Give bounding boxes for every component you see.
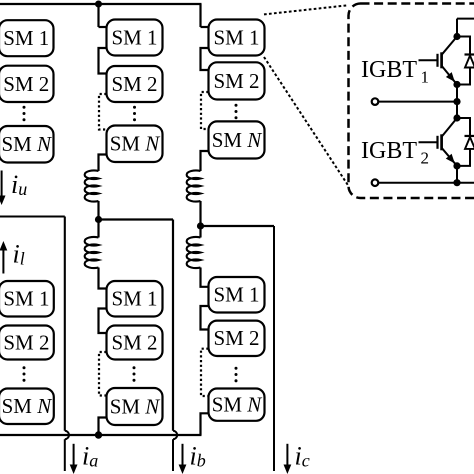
arrow current i_u (0, 171, 6, 206)
svg-text:SM 1: SM 1 (213, 25, 259, 49)
wire rail middle (456, 85, 458, 119)
svg-text:i: i (190, 442, 197, 471)
svg-text:i: i (295, 442, 302, 471)
inductor upper arm phase b (85, 170, 99, 201)
wire mid terminal (378, 101, 457, 103)
wire phase-c vertical (273, 226, 275, 471)
inductor lower arm phase b (85, 237, 99, 268)
submodule SM1 upper arm phase b (107, 20, 163, 56)
inductor lower arm phase c (187, 237, 201, 268)
label i_u (11, 170, 27, 199)
ellipsis dots upper arm phase c (235, 104, 238, 120)
svg-text:u: u (18, 179, 27, 199)
wire inductor to SM1 lower b (99, 268, 107, 289)
submodule SM2 lower arm phase b (107, 326, 163, 360)
wire phase-a tap horizontal (0, 215, 65, 217)
submodule SM1 upper arm phase c (209, 20, 265, 56)
node collector Q2 (453, 114, 460, 121)
submodule SM1 lower arm phase b (107, 281, 163, 317)
node top bus / phase-b leg junction (95, 1, 102, 8)
label i_b (190, 442, 206, 471)
ellipsis dots upper arm phase a (23, 106, 26, 122)
wire stub into SM1 (99, 26, 107, 28)
node emitter Q1 (453, 81, 460, 88)
submodule SMN upper arm phase c (209, 121, 265, 158)
label i_a (82, 442, 98, 471)
arrow current i_c (284, 444, 292, 474)
submodule SM2 lower arm phase a (0, 326, 54, 360)
submodule SMN lower arm phase c (209, 389, 265, 421)
wire inductor to SM1 lower c (201, 268, 209, 287)
submodule SM1 lower arm phase c (209, 277, 265, 313)
node phase-b midpoint (95, 216, 102, 223)
wire phase-b tap horizontal (99, 218, 174, 220)
svg-text:SM 2: SM 2 (111, 72, 157, 96)
wire SM1-SM2 lower c (201, 306, 209, 330)
svg-text:SM 2: SM 2 (3, 72, 49, 96)
wire SMN to bottom bus b (99, 418, 107, 436)
node bottom bus / leg b (95, 431, 102, 438)
wire phase-b vertical (172, 220, 174, 431)
terminal circle lower (372, 179, 379, 186)
svg-text:2: 2 (421, 148, 430, 167)
submodule SMN lower arm phase b (107, 388, 163, 425)
inductor upper arm phase c (187, 170, 201, 201)
dashed detail box outline (349, 4, 474, 199)
wire bottom terminal to capacitor (378, 182, 474, 184)
submodule SM2 lower arm phase c (209, 321, 265, 356)
svg-text:SM 2: SM 2 (213, 326, 259, 350)
wire SMN to bottom bus c (201, 413, 209, 435)
wire leg c top drop (199, 4, 201, 27)
wire phase-c tap horizontal (201, 225, 275, 227)
svg-text:1: 1 (421, 67, 430, 86)
ellipsis dots lower arm phase a (23, 366, 26, 382)
wire top DC bus (0, 3, 202, 5)
node emitter Q2 (453, 162, 460, 169)
svg-text:SM N: SM N (110, 394, 161, 418)
svg-text:SM 1: SM 1 (111, 287, 157, 311)
submodule SMN upper arm phase b (107, 126, 163, 163)
wire rail top (456, 19, 458, 37)
wire rail bottom (456, 166, 458, 183)
label i_c (295, 442, 310, 471)
wire SM1-SM2 upper b (99, 48, 107, 74)
ellipsis dots lower arm phase c (235, 367, 238, 383)
svg-text:SM N: SM N (212, 393, 263, 417)
svg-text:IGBT: IGBT (361, 138, 417, 164)
diode antiparallel Q2 (457, 118, 474, 166)
svg-text:i: i (13, 240, 20, 269)
wire stub into SM1 c (201, 26, 209, 28)
svg-text:a: a (89, 451, 98, 471)
wire detail top rail to capacitor (457, 18, 474, 20)
ellipsis dots upper arm phase b (133, 106, 136, 122)
node collector Q1 (453, 33, 460, 40)
svg-text:SM N: SM N (110, 132, 161, 156)
wire leg b top drop (97, 4, 99, 27)
svg-text:IGBT: IGBT (361, 57, 417, 83)
node phase-c midpoint (197, 222, 204, 229)
IGBT Q1 with antiparallel diode (419, 37, 458, 85)
svg-text:SM 2: SM 2 (213, 69, 259, 93)
label i_l (13, 240, 25, 269)
label IGBT2 (361, 138, 429, 167)
svg-text:SM 1: SM 1 (3, 26, 49, 50)
wire SM1-SM2 lower b (99, 309, 107, 334)
svg-text:c: c (302, 451, 310, 471)
svg-text:i: i (11, 170, 18, 199)
arrow current i_l (0, 241, 7, 274)
svg-text:SM 1: SM 1 (111, 25, 157, 49)
terminal circle upper (372, 98, 379, 105)
submodule SM2 upper arm phase a (0, 66, 54, 102)
wire SM1-SM2 upper c (201, 48, 209, 70)
submodule SMN upper arm phase a (0, 126, 54, 163)
submodule SMN lower arm phase a (0, 389, 54, 425)
wire phase-a below bus (64, 439, 66, 471)
svg-text:b: b (197, 451, 206, 471)
wire dotted SM2-SMN upper c (201, 92, 209, 129)
node bottom terminal junction (453, 179, 460, 186)
svg-text:i: i (82, 442, 89, 471)
svg-text:SM 2: SM 2 (3, 330, 49, 354)
svg-text:SM N: SM N (2, 394, 53, 418)
label IGBT1 (361, 57, 429, 86)
wire to midpoint b (97, 201, 99, 238)
dashed zoom line bottom (264, 57, 349, 186)
submodule SM2 upper arm phase b (107, 66, 163, 102)
IGBT Q2 with antiparallel diode (419, 118, 458, 166)
svg-text:SM N: SM N (212, 128, 263, 152)
wire SMN to arm inductor upper b (99, 155, 107, 172)
submodule SM2 upper arm phase c (209, 62, 265, 99)
wire dotted SM2-SMN lower b (99, 352, 107, 396)
wire to midpoint c (199, 201, 201, 238)
wire bottom DC bus (0, 434, 202, 436)
dashed zoom line top (264, 5, 349, 14)
submodule SM1 lower arm phase a (0, 281, 54, 317)
svg-text:SM 1: SM 1 (3, 287, 49, 311)
svg-text:SM N: SM N (1, 132, 52, 156)
submodule SM1 upper arm phase a (0, 20, 54, 56)
diode antiparallel Q1 (457, 37, 474, 85)
node mid terminal junction (453, 98, 460, 105)
arrow current i_b (179, 444, 187, 474)
svg-text:SM 1: SM 1 (213, 283, 259, 307)
svg-text:l: l (20, 249, 25, 269)
wire dotted SM2-SMN upper b (99, 94, 107, 130)
wire dotted SM2-SMN lower c (201, 349, 209, 396)
wire SMN to arm inductor upper c (201, 151, 209, 171)
wire phase-a vertical (64, 217, 66, 431)
svg-text:SM 2: SM 2 (111, 330, 157, 354)
ellipsis dots lower arm phase b (133, 366, 136, 382)
wire phase-b below bus (172, 439, 174, 471)
arrow current i_a (70, 444, 78, 474)
